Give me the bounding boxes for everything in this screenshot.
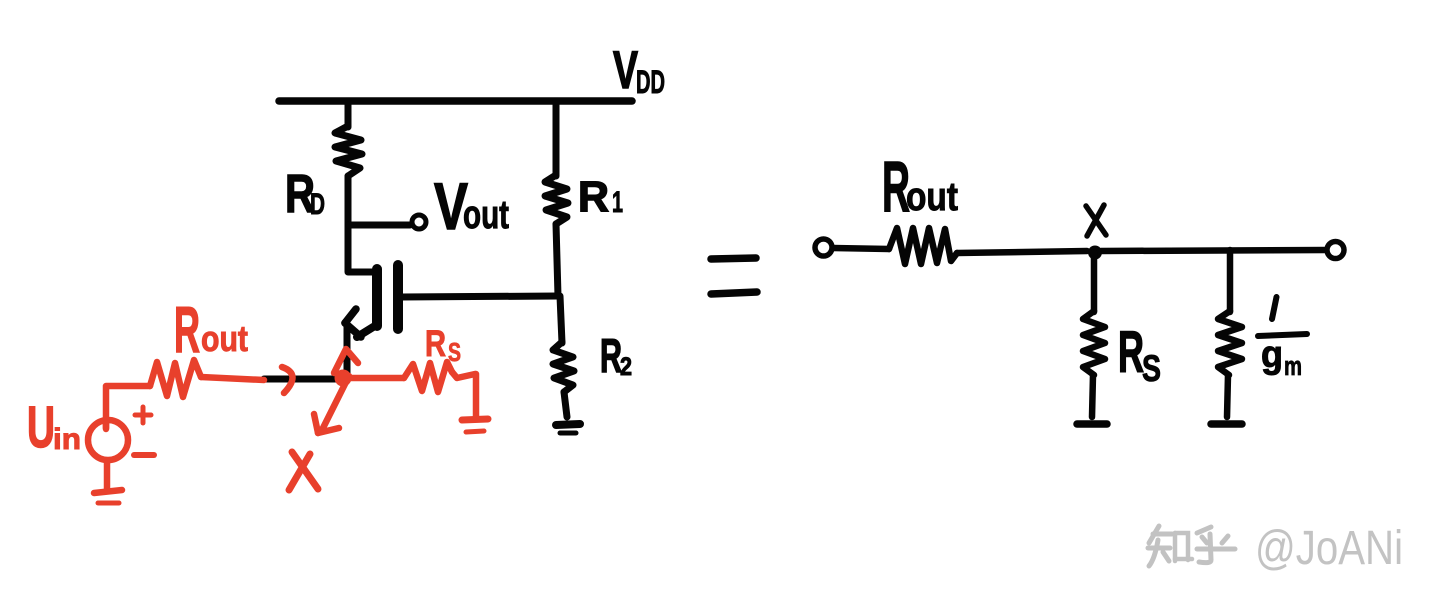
svg-text:out: out (906, 175, 958, 219)
svg-text:R: R (578, 173, 609, 221)
svg-text:R: R (174, 293, 200, 366)
svg-text:@JoANi: @JoANi (1255, 522, 1403, 575)
svg-text:out: out (201, 318, 248, 359)
svg-text:S: S (448, 337, 461, 367)
svg-text:R: R (1118, 320, 1144, 385)
svg-text:m: m (1284, 351, 1302, 381)
svg-text:D: D (310, 188, 325, 221)
svg-text:R: R (600, 329, 622, 382)
svg-text:in: in (53, 423, 81, 456)
svg-text:2: 2 (620, 353, 632, 381)
svg-text:U: U (27, 395, 55, 460)
svg-text:V: V (613, 41, 638, 100)
svg-text:g: g (1261, 334, 1283, 376)
svg-text:out: out (463, 193, 509, 237)
svg-text:S: S (1142, 348, 1161, 389)
svg-text:1: 1 (612, 186, 623, 219)
svg-text:DD: DD (636, 64, 665, 100)
svg-text:R: R (425, 323, 446, 364)
